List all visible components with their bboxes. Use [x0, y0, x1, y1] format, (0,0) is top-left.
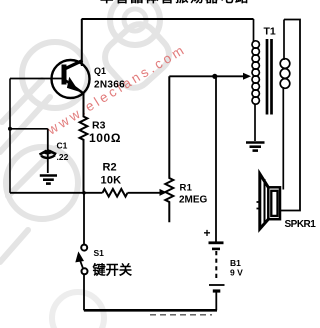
resistor R3	[80, 93, 88, 193]
svg-text:SPKR1: SPKR1	[285, 219, 317, 230]
svg-text:R2: R2	[103, 162, 117, 174]
wire: S1 bottom lead	[83, 275, 85, 311]
wire: left vertical	[9, 79, 11, 193]
potentiometer R1	[165, 76, 173, 222]
resistor R2	[103, 189, 128, 197]
svg-text:2N366: 2N366	[94, 80, 125, 91]
node: primary tap arrow	[243, 73, 251, 80]
svg-text:.22: .22	[57, 152, 69, 162]
ground (under C1)	[40, 176, 57, 184]
svg-text:单管晶体管振荡器电路: 单管晶体管振荡器电路	[100, 0, 250, 5]
transformer T1 primary winding	[252, 19, 259, 141]
wire: top rail from collector to T1 primary	[82, 18, 254, 20]
transformer T1 secondary winding	[280, 20, 290, 190]
potentiometer R1 wiper arrow	[160, 189, 167, 196]
switch S1	[76, 245, 88, 275]
wire: branch to C1	[10, 128, 48, 130]
wire: B+ rail	[169, 75, 248, 77]
ground (under T1 primary)	[246, 143, 265, 151]
wire: bottom rail smudge	[150, 314, 212, 316]
node: junction R2/S1	[82, 191, 86, 195]
wire: battery bottom lead	[215, 293, 217, 311]
capacitor C1	[40, 150, 57, 158]
wire: battery top lead	[215, 76, 217, 241]
svg-text:T1: T1	[264, 26, 276, 38]
transistor Q1	[52, 60, 90, 98]
svg-text:键开关: 键开关	[92, 262, 133, 278]
gray watermark shapes	[0, 0, 176, 328]
svg-text:100Ω: 100Ω	[89, 131, 121, 145]
wire: R2 rail	[10, 192, 162, 194]
red watermark www.elecfans.com	[44, 41, 189, 138]
svg-text:R3: R3	[92, 120, 106, 132]
wire: S1 top lead	[83, 193, 85, 245]
wire: secondary top bridge	[281, 20, 301, 211]
node: junction base/C1 branch	[8, 127, 12, 131]
svg-text:10K: 10K	[101, 175, 122, 187]
node: junction battery rail	[212, 74, 217, 79]
wire: base lead	[10, 78, 62, 80]
svg-text:S1: S1	[94, 248, 105, 258]
wire: C1 top lead	[47, 129, 49, 173]
wire: bottom rail	[84, 309, 217, 312]
svg-text:C1: C1	[57, 141, 68, 151]
battery B1	[209, 243, 225, 291]
svg-text:2MEG: 2MEG	[179, 195, 208, 206]
svg-text:9 V: 9 V	[230, 268, 243, 278]
svg-text:B1: B1	[230, 258, 241, 268]
wire: collector vertical	[81, 19, 83, 66]
svg-text:R1: R1	[180, 183, 193, 194]
speaker SPKR1	[257, 174, 281, 229]
transformer T1 core	[267, 39, 272, 115]
svg-text:Q1: Q1	[94, 66, 106, 76]
svg-text:+: +	[204, 226, 211, 240]
